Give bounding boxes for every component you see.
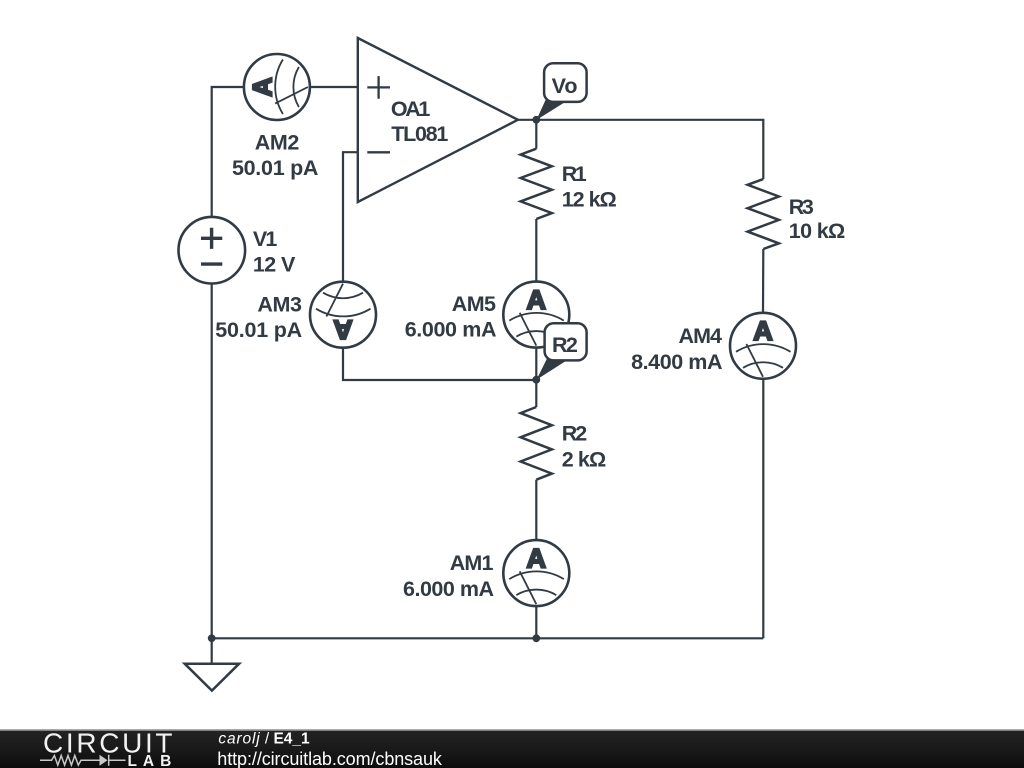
voltage source V1 [179, 217, 246, 284]
junction dot output node [532, 116, 540, 124]
net flag Vo [536, 63, 586, 120]
wire from AM2 right to op-amp + input [310, 86, 358, 88]
svg-text:carolj / E4_1: carolj / E4_1 [218, 730, 310, 747]
svg-text:TL081: TL081 [391, 122, 448, 146]
svg-text:AM2: AM2 [255, 131, 300, 155]
svg-text:6.000 mA: 6.000 mA [403, 577, 494, 601]
svg-text:V1: V1 [253, 227, 278, 251]
svg-text:R2: R2 [552, 333, 578, 357]
wire AM5 bottom to node A [535, 348, 537, 380]
logo resistor-diode squiggle [40, 755, 126, 766]
wire node A to R2 top [535, 380, 537, 407]
wire R2 bottom to AM1 top [535, 480, 537, 540]
ground [185, 664, 239, 691]
wire bottom rail to AM4 bottom [762, 379, 764, 639]
wire output node to R1 top [535, 120, 537, 149]
svg-text:OA1: OA1 [391, 97, 431, 121]
svg-text:AM3: AM3 [257, 292, 302, 316]
svg-text:AM1: AM1 [450, 551, 494, 575]
footer bar [0, 729, 1024, 768]
svg-text:8.400 mA: 8.400 mA [631, 350, 722, 374]
wire ground stub [211, 638, 213, 663]
svg-text:LAB: LAB [128, 753, 172, 768]
wire op-amp output to R3 top [518, 120, 763, 179]
net flag R2 [537, 323, 587, 380]
junction dot ground node [208, 634, 216, 642]
ammeter AM5 [503, 282, 569, 348]
svg-text:AM4: AM4 [679, 324, 723, 348]
wire AM3 bottom to node A [343, 348, 536, 380]
wire bottom rail [212, 637, 764, 639]
svg-text:50.01 pA: 50.01 pA [215, 318, 302, 342]
ammeter AM4 [730, 313, 796, 379]
svg-text:http://circuitlab.com/cbnsauk: http://circuitlab.com/cbnsauk [217, 749, 443, 768]
svg-text:Vo: Vo [552, 74, 578, 98]
junction dot AM1 bottom node [532, 634, 540, 642]
svg-text:12 kΩ: 12 kΩ [562, 187, 617, 211]
svg-text:10 kΩ: 10 kΩ [789, 219, 846, 243]
resistor R1 [521, 149, 552, 219]
svg-text:R3: R3 [789, 195, 814, 219]
ammeter AM2 [244, 54, 310, 120]
wire AM4 top to R3 bottom [762, 249, 764, 313]
wire AM1 bottom to bottom rail [535, 606, 537, 638]
wire from AM2 left to V1 top [212, 87, 245, 217]
svg-text:6.000 mA: 6.000 mA [405, 318, 497, 342]
resistor R3 [748, 179, 779, 249]
svg-text:50.01 pA: 50.01 pA [232, 156, 319, 180]
svg-text:R2: R2 [562, 422, 588, 446]
svg-text:2 kΩ: 2 kΩ [562, 447, 607, 471]
resistor R2 [521, 407, 552, 480]
wire R1 bottom to AM5 top [535, 219, 537, 282]
wire V1 bottom to ground junction [211, 284, 213, 639]
ammeter AM1 [503, 540, 569, 606]
svg-text:AM5: AM5 [452, 292, 496, 316]
junction dot node A [532, 376, 540, 384]
op-amp OA1 [358, 38, 518, 202]
svg-text:R1: R1 [562, 162, 587, 186]
svg-text:12 V: 12 V [253, 253, 296, 277]
ammeter AM3 [310, 282, 376, 348]
wire op-amp - input to AM3 top [343, 152, 358, 282]
